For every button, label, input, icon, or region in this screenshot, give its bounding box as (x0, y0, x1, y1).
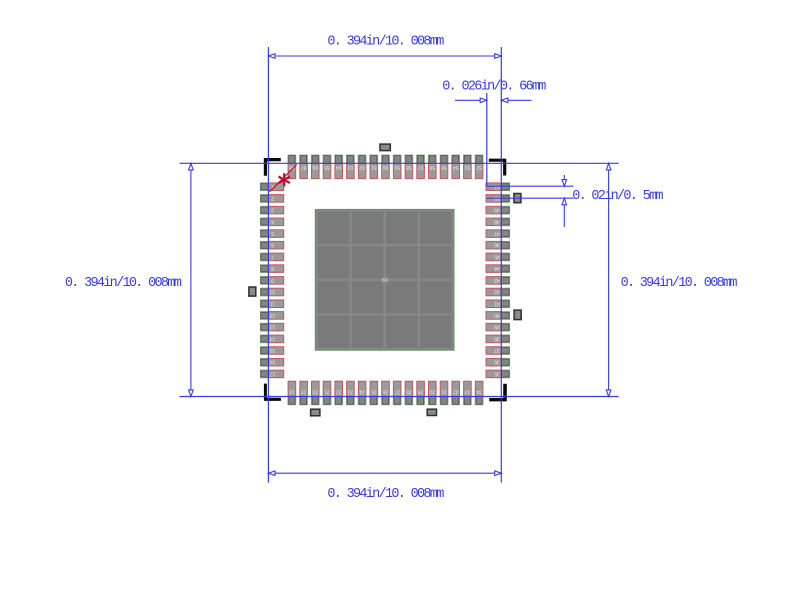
pad 67 outer stub (300, 155, 308, 164)
svg-text:47: 47 (494, 230, 500, 236)
svg-text:67: 67 (301, 164, 307, 170)
pad 35 outer stub (501, 370, 510, 378)
courtyard corner bracket bottom-left (264, 384, 281, 401)
svg-text:54: 54 (453, 164, 459, 170)
pad 36 outer stub (501, 358, 510, 366)
pad 59 (top row) (393, 163, 401, 178)
pad 58 outer stub (405, 155, 413, 164)
dimension arrows 0.026in/0.66mm pad length (455, 98, 532, 103)
pad 21 outer stub (323, 396, 331, 405)
dimension line top 0.394in/10.008mm (268, 54, 501, 59)
pad 5 (left column) (268, 230, 283, 238)
svg-text:38: 38 (494, 335, 500, 341)
pad 68 (top row) (288, 163, 296, 178)
pad 29 (bottom row) (417, 381, 425, 396)
pad 14 outer stub (260, 335, 269, 343)
pad 48 (right column) (486, 218, 501, 226)
svg-text:2: 2 (271, 195, 274, 201)
pad 26 outer stub (382, 396, 390, 405)
pad 47 (right column) (486, 230, 501, 238)
pad 45 (right column) (486, 253, 501, 261)
pad 7 outer stub (260, 253, 269, 261)
svg-text:0. 394in/10. 008mm: 0. 394in/10. 008mm (65, 276, 182, 291)
pad 7 (left column) (268, 253, 283, 261)
pad 8 outer stub (260, 265, 269, 273)
svg-text:21: 21 (324, 389, 330, 395)
svg-text:16: 16 (270, 359, 276, 365)
pad 19 (bottom row) (300, 381, 308, 396)
pad 32 outer stub (452, 396, 460, 405)
svg-text:0. 394in/10. 008mm: 0. 394in/10. 008mm (621, 276, 738, 291)
pad 49 outer stub (501, 206, 510, 214)
pad 17 outer stub (260, 370, 269, 378)
pad 58 (top row) (405, 163, 413, 178)
pad 12 (left column) (268, 312, 283, 320)
pad 20 (bottom row) (312, 381, 320, 396)
pad 13 outer stub (260, 323, 269, 331)
fiducial rectangle top (380, 144, 390, 151)
pad 28 (bottom row) (405, 381, 413, 396)
svg-text:5: 5 (271, 230, 274, 236)
pad 2 (left column) (268, 195, 283, 203)
svg-text:0. 02in/0. 5mm: 0. 02in/0. 5mm (572, 189, 663, 204)
pad 4 outer stub (260, 218, 269, 226)
svg-text:19: 19 (301, 389, 307, 395)
pad 23 outer stub (346, 396, 354, 405)
pad 6 outer stub (260, 241, 269, 249)
svg-text:48: 48 (494, 218, 500, 224)
pad 17 (left column) (268, 370, 283, 378)
pad 39 outer stub (501, 323, 510, 331)
extension line top horizontal (courtyard top edge) (180, 162, 619, 164)
svg-text:35: 35 (494, 370, 500, 376)
pad 56 (top row) (429, 163, 437, 178)
pad 62 (top row) (358, 163, 366, 178)
svg-text:8: 8 (271, 265, 274, 271)
extension line left vertical (courtyard left edge) (267, 47, 269, 483)
pad 32 (bottom row) (452, 381, 460, 396)
dimension text 0.02in/0.5mm (572, 189, 663, 204)
pad 29 outer stub (417, 396, 425, 405)
pad 54 (top row) (452, 163, 460, 178)
pad 55 (top row) (440, 163, 448, 178)
svg-text:15: 15 (270, 347, 276, 353)
pad 38 (right column) (486, 335, 501, 343)
pad 12 outer stub (260, 312, 269, 320)
svg-text:14: 14 (270, 335, 276, 341)
svg-text:10: 10 (270, 289, 276, 295)
pad 16 outer stub (260, 358, 269, 366)
pad 38 outer stub (501, 335, 510, 343)
svg-text:57: 57 (418, 164, 424, 170)
pad 27 outer stub (393, 396, 401, 405)
pad 2 outer stub (260, 195, 269, 203)
svg-text:4: 4 (271, 218, 274, 224)
pad 52 outer stub (475, 155, 483, 164)
pad 41 (right column) (486, 300, 501, 308)
svg-text:23: 23 (347, 389, 353, 395)
pad 54 outer stub (452, 155, 460, 164)
pad 14 (left column) (268, 335, 283, 343)
svg-text:22: 22 (336, 389, 342, 395)
svg-text:27: 27 (394, 389, 400, 395)
pad 66 (top row) (312, 163, 320, 178)
pad 4 (left column) (268, 218, 283, 226)
pad 33 (bottom row) (464, 381, 472, 396)
svg-text:60: 60 (383, 164, 389, 170)
pad 11 outer stub (260, 300, 269, 308)
fiducial rectangle bottom left (311, 409, 320, 416)
pad 27 (bottom row) (393, 381, 401, 396)
thermal pad 69 (exposed pad) (315, 209, 454, 350)
dimension text bottom 0.394in/10.008mm (327, 487, 444, 502)
courtyard corner bracket bottom-right (489, 384, 507, 402)
svg-text:12: 12 (270, 312, 276, 318)
pad 9 (left column) (268, 277, 283, 285)
fiducial rectangle right lower (514, 310, 521, 320)
svg-text:7: 7 (271, 253, 274, 259)
svg-text:37: 37 (494, 347, 500, 353)
svg-text:40: 40 (494, 312, 500, 318)
pad 37 outer stub (501, 347, 510, 355)
pad 20 outer stub (311, 396, 319, 405)
pad 36 (right column) (486, 358, 501, 366)
pad 40 (right column) (486, 312, 501, 320)
pad 24 (bottom row) (358, 381, 366, 396)
pad 45 outer stub (501, 253, 510, 261)
svg-text:59: 59 (394, 164, 400, 170)
pad 19 outer stub (300, 396, 308, 405)
svg-text:30: 30 (429, 389, 435, 395)
svg-text:33: 33 (464, 389, 470, 395)
pad 25 (bottom row) (370, 381, 378, 396)
pad 3 (left column) (268, 206, 283, 214)
fiducial rectangle right upper (514, 194, 521, 203)
svg-text:42: 42 (494, 289, 500, 295)
svg-text:20: 20 (312, 389, 318, 395)
pad 43 outer stub (501, 276, 510, 284)
svg-text:32: 32 (453, 389, 459, 395)
svg-text:46: 46 (494, 242, 500, 248)
pad 42 outer stub (501, 288, 510, 296)
pad 56 outer stub (428, 155, 436, 164)
pad 64 (top row) (335, 163, 343, 178)
dimension arrows 0.02in/0.5mm pitch (562, 175, 567, 227)
pad 61 (top row) (370, 163, 378, 178)
svg-text:3: 3 (271, 207, 274, 213)
pad 51 (right column) (486, 183, 501, 191)
svg-text:49: 49 (494, 207, 500, 213)
pad 15 (left column) (268, 347, 283, 355)
pad 66 outer stub (311, 155, 319, 164)
pad 35 (right column) (486, 370, 501, 378)
pad 61 outer stub (370, 155, 378, 164)
pad 60 (top row) (382, 163, 390, 178)
pad 44 outer stub (501, 265, 510, 273)
svg-text:34: 34 (476, 389, 482, 395)
svg-text:26: 26 (383, 389, 389, 395)
pin 1 marker asterisk (278, 173, 289, 186)
pad 21 (bottom row) (323, 381, 331, 396)
pad 50 outer stub (501, 195, 510, 203)
pad 40 outer stub (501, 312, 510, 320)
pad 24 outer stub (358, 396, 366, 405)
pad 47 outer stub (501, 230, 510, 238)
pad 3 outer stub (260, 206, 269, 214)
svg-text:39: 39 (494, 324, 500, 330)
pad 64 outer stub (335, 155, 343, 164)
pad 50 (right column) (486, 195, 501, 203)
pad 67 (top row) (300, 163, 308, 178)
pad 1 outer stub (260, 183, 269, 191)
pin 1 marker diagonal line (270, 165, 297, 192)
pad 55 outer stub (440, 155, 448, 164)
svg-text:43: 43 (494, 277, 500, 283)
svg-text:28: 28 (406, 389, 412, 395)
pad 60 outer stub (382, 155, 390, 164)
pad 34 (bottom row) (475, 381, 483, 396)
pad 13 (left column) (268, 323, 283, 331)
svg-text:61: 61 (371, 164, 377, 170)
dimension line left 0.394in/10.008mm (189, 163, 194, 396)
svg-text:55: 55 (441, 164, 447, 170)
svg-text:64: 64 (336, 164, 342, 170)
svg-text:36: 36 (494, 359, 500, 365)
leader line pad 50 centerline (487, 197, 574, 199)
pad 31 outer stub (440, 396, 448, 405)
svg-text:44: 44 (494, 265, 500, 271)
pad 41 outer stub (501, 300, 510, 308)
svg-text:56: 56 (429, 164, 435, 170)
pad 23 (bottom row) (347, 381, 355, 396)
pad 26 (bottom row) (382, 381, 390, 396)
pad 57 (top row) (417, 163, 425, 178)
pad 22 (bottom row) (335, 381, 343, 396)
pad 44 (right column) (486, 265, 501, 273)
pad 65 outer stub (323, 155, 331, 164)
svg-text:52: 52 (476, 164, 482, 170)
svg-text:0. 394in/10. 008mm: 0. 394in/10. 008mm (327, 487, 444, 502)
pad 18 outer stub (288, 396, 296, 405)
pad 34 outer stub (475, 396, 483, 405)
pad 52 (top row) (475, 163, 483, 178)
svg-text:6: 6 (271, 242, 274, 248)
svg-text:9: 9 (271, 277, 274, 283)
extension line bottom horizontal (courtyard bottom edge) (180, 396, 619, 398)
extension line right vertical (courtyard right edge) (500, 47, 502, 483)
svg-text:18: 18 (289, 389, 295, 395)
svg-text:41: 41 (494, 300, 500, 306)
svg-text:13: 13 (270, 324, 276, 330)
pad 57 outer stub (417, 155, 425, 164)
pad 39 (right column) (486, 323, 501, 331)
pad 46 outer stub (501, 241, 510, 249)
svg-text:0. 394in/10. 008mm: 0. 394in/10. 008mm (327, 35, 444, 50)
leader line pad 51 centerline (487, 185, 574, 187)
svg-text:65: 65 (324, 164, 330, 170)
dimension text 0.026in/0.66mm (442, 80, 546, 95)
pad 42 (right column) (486, 288, 501, 296)
svg-text:69: 69 (382, 276, 388, 282)
svg-text:24: 24 (359, 389, 365, 395)
pad 30 (bottom row) (429, 381, 437, 396)
pad 68 outer stub (288, 155, 296, 164)
fiducial rectangle left (249, 287, 256, 296)
dimension text right 0.394in/10.008mm (621, 276, 738, 291)
pad 33 outer stub (463, 396, 471, 405)
pad 22 outer stub (335, 396, 343, 405)
svg-text:45: 45 (494, 253, 500, 259)
pad 48 outer stub (501, 218, 510, 226)
svg-text:11: 11 (270, 300, 275, 306)
pad 18 (bottom row) (288, 381, 296, 396)
pad 15 outer stub (260, 347, 269, 355)
svg-text:62: 62 (359, 164, 365, 170)
pad 53 outer stub (463, 155, 471, 164)
pad 11 (left column) (268, 300, 283, 308)
dimension line bottom 0.394in/10.008mm (268, 471, 501, 476)
pad 8 (left column) (268, 265, 283, 273)
pad 43 (right column) (486, 277, 501, 285)
pad 53 (top row) (464, 163, 472, 178)
pad 10 outer stub (260, 288, 269, 296)
pad 59 outer stub (393, 155, 401, 164)
pad 51 outer stub (501, 183, 510, 191)
pad 63 (top row) (347, 163, 355, 178)
pad 65 (top row) (323, 163, 331, 178)
svg-text:53: 53 (464, 164, 470, 170)
svg-text:66: 66 (312, 164, 318, 170)
courtyard corner bracket top-left (264, 158, 281, 176)
pad 62 outer stub (358, 155, 366, 164)
pad 31 (bottom row) (440, 381, 448, 396)
svg-text:0. 026in/0. 66mm: 0. 026in/0. 66mm (442, 80, 546, 95)
dimension line right 0.394in/10.008mm (606, 163, 611, 396)
pad 6 (left column) (268, 241, 283, 249)
pad 9 outer stub (260, 276, 269, 284)
svg-text:25: 25 (371, 389, 377, 395)
dimension text left 0.394in/10.008mm (65, 276, 182, 291)
pad 37 (right column) (486, 347, 501, 355)
pad 30 outer stub (428, 396, 436, 405)
extension line pad inner edge vertical (486, 93, 488, 186)
pad 49 (right column) (486, 206, 501, 214)
pad 10 (left column) (268, 288, 283, 296)
pad 63 outer stub (346, 155, 354, 164)
svg-text:63: 63 (347, 164, 353, 170)
pad 25 outer stub (370, 396, 378, 405)
pad 1 (left column) (268, 183, 283, 191)
fiducial rectangle bottom right (427, 409, 436, 415)
dimension text top 0.394in/10.008mm (327, 35, 444, 50)
pad 28 outer stub (405, 396, 413, 405)
pad 16 (left column) (268, 358, 283, 366)
courtyard corner bracket top-right (489, 159, 507, 176)
svg-text:17: 17 (270, 370, 276, 376)
pad 46 (right column) (486, 241, 501, 249)
svg-text:31: 31 (441, 389, 447, 395)
pad 5 outer stub (260, 230, 269, 238)
svg-text:29: 29 (418, 389, 424, 395)
svg-text:58: 58 (406, 164, 412, 170)
